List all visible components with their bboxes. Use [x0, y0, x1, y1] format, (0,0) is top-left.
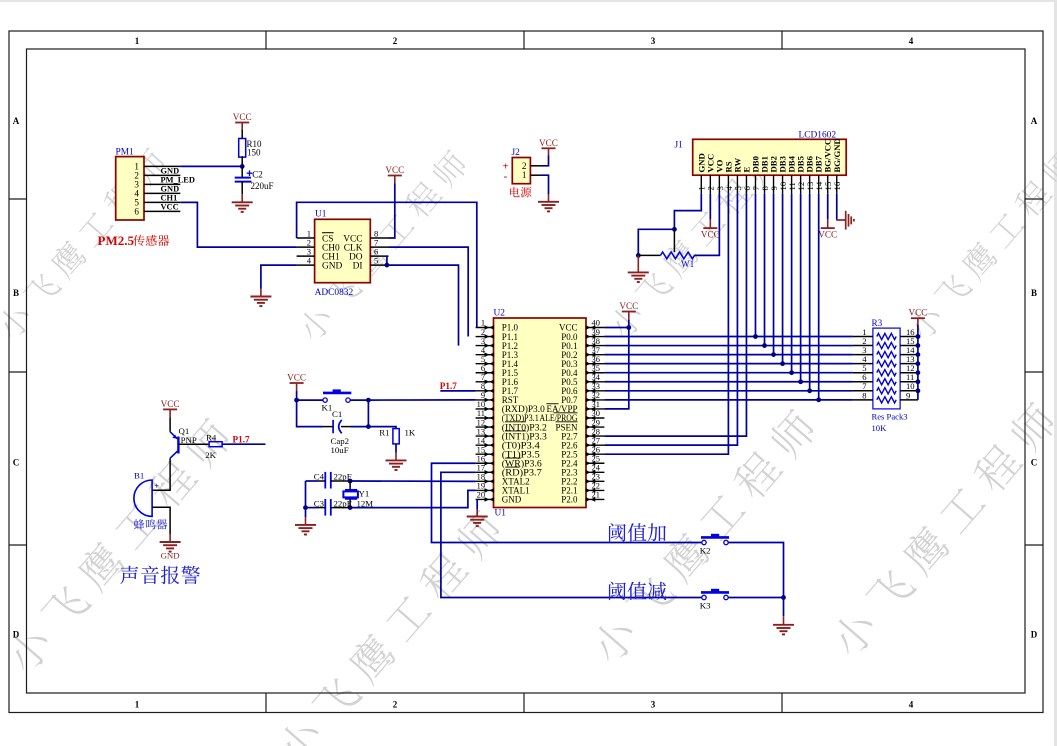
wire P0.1 net: U2.38 to R3.2: [604, 345, 853, 347]
wire buzzer bottom to ground: [152, 507, 170, 534]
wire P0.7 net: U2.32 to R3.8: [604, 399, 853, 401]
wire DI net to U2 P1.2: [389, 265, 459, 346]
wire Q1 collector to buzzer: [152, 458, 170, 490]
wire J2.2 to VCC: [540, 156, 549, 166]
potentiometer W1: [661, 252, 695, 259]
svg-text:39: 39: [592, 328, 600, 337]
svg-text:VCC: VCC: [161, 399, 180, 409]
svg-text:10K: 10K: [872, 423, 888, 433]
svg-text:B: B: [1031, 288, 1037, 298]
junction (R3 pin 13): [916, 361, 921, 366]
svg-text:24: 24: [592, 464, 601, 473]
svg-text:7: 7: [481, 373, 485, 382]
ground (W1): [637, 255, 639, 272]
junction (DB6/P0.6): [807, 388, 812, 393]
svg-text:4: 4: [909, 36, 914, 46]
svg-text:23: 23: [592, 473, 600, 482]
svg-text:19: 19: [477, 482, 485, 491]
wire DB5: J1.12 down to P0.5: [800, 194, 802, 382]
svg-text:GND: GND: [161, 167, 180, 176]
junction (DB4/P0.4): [789, 370, 794, 375]
svg-text:11: 11: [477, 409, 485, 418]
svg-text:VCC: VCC: [233, 112, 252, 122]
wire C4/XTAL2 net to U2.18: [331, 480, 350, 482]
wire RS: J1.4 to U2 P2.5: [604, 194, 728, 454]
wire DB3: J1.10 down to P0.3: [782, 194, 784, 364]
svg-text:17: 17: [477, 464, 485, 473]
wire C3 left: [306, 507, 318, 509]
wire RW: J1.5 to U2 P2.6: [604, 194, 737, 445]
svg-text:ADC0832: ADC0832: [315, 288, 354, 298]
svg-text:32: 32: [592, 391, 600, 400]
wire DB0: J1.7 down to P0.0: [754, 194, 756, 337]
wire E: J1.6 to U2 P2.7: [604, 194, 746, 436]
svg-text:14: 14: [477, 436, 486, 445]
svg-text:20: 20: [477, 491, 485, 500]
switch K1: [297, 399, 323, 401]
wire CLK net: U1.7 to U2 P1.1: [389, 247, 469, 336]
junction (DB5/P0.5): [798, 379, 803, 384]
svg-text:VCC: VCC: [908, 308, 927, 318]
svg-text:VCC: VCC: [385, 165, 404, 175]
svg-text:C: C: [13, 458, 20, 468]
junction (DB0/P0.0): [753, 334, 758, 339]
capacitor C4: [324, 472, 326, 489]
ground (C3/C4): [305, 517, 307, 525]
wire U2.16 WR to K2: [432, 463, 702, 542]
svg-text:GND: GND: [161, 185, 180, 194]
junction (DB3/P0.3): [780, 361, 785, 366]
svg-text:U1: U1: [495, 509, 507, 519]
svg-text:C: C: [1031, 458, 1038, 468]
signal ground (J1.16): [836, 219, 845, 221]
svg-text:VCC: VCC: [539, 138, 558, 148]
wire P0.0 net: U2.39 to R3.1: [604, 336, 853, 338]
junction (VCC/EA node): [626, 325, 631, 330]
junction (R3 pin 10): [916, 388, 921, 393]
wire P0.3 net: U2.36 to R3.4: [604, 363, 853, 365]
wire K3 right to ground node: [728, 597, 783, 599]
junction (VCC/K1/C1): [294, 398, 299, 403]
svg-text:J1: J1: [675, 141, 684, 151]
junction node (R10/C2/PM1.1): [240, 164, 245, 169]
svg-text:9: 9: [481, 391, 485, 400]
svg-text:1: 1: [522, 170, 527, 180]
resistor network R3 Res Pack3: [873, 328, 900, 409]
power VCC (J1.2) inverted: [709, 194, 711, 219]
wire R3 common to VCC: [917, 325, 919, 400]
svg-text:B1: B1: [134, 471, 144, 481]
junction (DB1/P0.1): [762, 343, 767, 348]
svg-text:D: D: [1031, 630, 1038, 640]
wire K1 node down to C1 node: [367, 400, 369, 427]
junction (DB7/P0.7): [816, 397, 821, 402]
junction (W1 left/ground): [636, 253, 641, 258]
svg-text:26: 26: [592, 445, 600, 454]
mcu U2 AT89C51: [494, 318, 587, 508]
label buzzer (fengmingqi): [134, 519, 167, 529]
wire J1.16 to signal ground: [836, 194, 838, 220]
svg-text:PM1: PM1: [116, 148, 135, 158]
svg-text:B: B: [13, 288, 19, 298]
svg-text:C1: C1: [332, 409, 342, 419]
svg-text:J2: J2: [512, 148, 521, 158]
svg-text:29: 29: [592, 418, 600, 427]
ground (R1): [395, 452, 397, 460]
wire C3/XTAL1 net to U2.19: [331, 507, 350, 509]
svg-text:-: -: [504, 171, 508, 183]
svg-text:C2: C2: [252, 170, 263, 180]
svg-text:30: 30: [592, 409, 600, 418]
wire J1.3 VO to W1 right: [695, 194, 720, 256]
svg-text:Y1: Y1: [359, 489, 370, 499]
svg-text:GND: GND: [322, 261, 343, 271]
wire K1 to RST node: [350, 399, 368, 401]
svg-text:13: 13: [477, 427, 485, 436]
svg-text:1: 1: [481, 319, 485, 328]
wire U2.40 to VCC node: [604, 327, 628, 329]
wire CS net: U1.1 to U2 P1.0: [297, 202, 477, 327]
switch K2: [702, 540, 706, 544]
svg-text:+: +: [154, 480, 159, 490]
svg-text:38: 38: [592, 337, 600, 346]
wire C1 right to R1 node: [351, 426, 368, 428]
svg-text:35: 35: [592, 364, 600, 373]
junction (DO/DI): [385, 263, 390, 268]
wire U2.17 RD to K3: [441, 472, 702, 597]
ground (B1) with GND label: [169, 534, 171, 542]
label threshold plus (yuzhijia): [609, 523, 666, 541]
svg-text:3: 3: [651, 700, 656, 710]
junction (R3 pin 11): [916, 379, 921, 384]
ground (K2/K3): [783, 598, 785, 617]
power VCC (J1.15) inverted: [827, 194, 829, 219]
svg-text:9: 9: [906, 390, 910, 400]
wire to R1 top: [368, 427, 396, 429]
svg-text:15: 15: [477, 445, 485, 454]
power VCC (U2.40): [622, 311, 636, 313]
svg-text:R1: R1: [379, 428, 389, 438]
svg-text:150: 150: [247, 148, 261, 158]
ground (U2 GND): [476, 510, 478, 517]
svg-text:R3: R3: [872, 318, 883, 328]
svg-text:5: 5: [481, 355, 485, 364]
wire DO to DI tie: [386, 256, 388, 265]
junction (C3 left/ground): [303, 505, 308, 510]
svg-text:GND: GND: [502, 495, 522, 505]
svg-text:PM2.5: PM2.5: [98, 233, 135, 248]
wire EA/VPP to VCC node: [604, 328, 628, 409]
wire J1.1 GND to W1 node: [674, 194, 701, 230]
junction (R3 pin 12): [916, 370, 921, 375]
wire left verticals to ground: [305, 481, 307, 517]
power VCC (Q1): [163, 408, 177, 410]
svg-text:U2: U2: [494, 309, 506, 319]
resistor R10: [239, 139, 246, 158]
wire DB4: J1.11 down to P0.4: [791, 194, 793, 373]
junction (DB2/P0.2): [771, 352, 776, 357]
svg-text:18: 18: [477, 473, 485, 482]
svg-text:P2.0: P2.0: [561, 495, 578, 505]
svg-text:16: 16: [832, 181, 842, 190]
power VCC (K1): [290, 382, 304, 384]
ground (U1 GND): [260, 289, 262, 297]
junction (R3 pin 16): [916, 334, 921, 339]
wire DB7: J1.14 down to P0.7: [818, 194, 820, 400]
svg-text:A: A: [1031, 116, 1038, 126]
svg-text:C4: C4: [314, 471, 325, 481]
svg-text:25: 25: [592, 454, 600, 463]
wire to W1 left terminal: [638, 254, 660, 256]
svg-text:A: A: [13, 116, 20, 126]
svg-text:DI: DI: [353, 261, 363, 271]
svg-text:VCC: VCC: [287, 373, 306, 383]
wire VCC to Q1 emitter: [169, 418, 171, 432]
wire PM1.1 to node: [180, 165, 242, 167]
wire P0.4 net: U2.35 to R3.5: [604, 372, 853, 374]
svg-text:2: 2: [393, 700, 398, 710]
ground (C2): [241, 194, 243, 202]
svg-text:37: 37: [592, 346, 600, 355]
svg-text:VCC: VCC: [701, 229, 720, 239]
svg-text:K1: K1: [322, 403, 333, 413]
resistor R1: [393, 429, 399, 444]
svg-text:40: 40: [592, 319, 600, 328]
label threshold minus (yuzhijian): [609, 582, 666, 601]
resistor R4: [209, 442, 222, 447]
capacitor C1 Cap2: [332, 420, 334, 433]
svg-text:10uF: 10uF: [331, 445, 349, 455]
junction (R3 pin 15): [916, 343, 921, 348]
junction (R3 pin 14): [916, 352, 921, 357]
svg-text:2K: 2K: [205, 450, 216, 460]
connector J2: [512, 158, 530, 184]
svg-text:28: 28: [592, 427, 600, 436]
net label P1.7 (U2.8): [440, 390, 475, 392]
svg-text:36: 36: [592, 355, 600, 364]
connector J1 LCD1602: [693, 139, 847, 175]
wire RST net to U2.9: [368, 399, 475, 401]
capacitor C3: [324, 499, 326, 516]
svg-text:27: 27: [592, 436, 600, 445]
svg-text:P1.7: P1.7: [233, 435, 251, 445]
power VCC (R10 top): [235, 122, 249, 124]
capacitor C2: [241, 166, 243, 177]
buzzer B1: [134, 480, 152, 516]
wire DB1: J1.8 down to P0.1: [764, 194, 766, 346]
svg-text:R4: R4: [206, 433, 217, 443]
svg-text:CH1: CH1: [161, 194, 178, 203]
wire P0.6 net: U2.33 to R3.7: [604, 390, 853, 392]
wire P0.5 net: U2.34 to R3.6: [604, 381, 853, 383]
svg-text:34: 34: [592, 373, 601, 382]
svg-text:1: 1: [135, 36, 140, 46]
svg-text:1K: 1K: [405, 428, 416, 438]
wire P0.2 net: U2.37 to R3.3: [604, 354, 853, 356]
wire C4 left: [306, 480, 318, 482]
svg-text:2: 2: [481, 328, 485, 337]
junction (C1/R1): [366, 424, 371, 429]
svg-text:3: 3: [651, 36, 656, 46]
svg-text:GND: GND: [161, 551, 180, 561]
op-amp U1 ADC0832: [315, 219, 371, 282]
power VCC (R3): [911, 317, 925, 319]
wire DB6: J1.13 down to P0.6: [809, 194, 811, 391]
label power (dianyuan): [510, 187, 531, 198]
power VCC (U1.8): [388, 175, 402, 177]
junction (K2/K3/ground): [781, 595, 786, 600]
svg-text:12M: 12M: [357, 499, 374, 509]
svg-text:PM_LED: PM_LED: [161, 176, 195, 185]
wire W1 wiper node to left: [638, 229, 674, 255]
wire U1.8 to VCC: [389, 184, 395, 239]
wire U2.20 GND to ground: [476, 499, 478, 509]
junction (K1/RST/C1): [366, 398, 371, 403]
svg-text:12: 12: [477, 418, 485, 427]
crystal Y1: [349, 481, 351, 490]
svg-text:31: 31: [592, 400, 600, 409]
svg-text:1: 1: [135, 700, 140, 710]
junction (C3/Y1): [348, 505, 353, 510]
label sound alarm (shengyinbaojing): [120, 566, 200, 585]
svg-text:3: 3: [481, 337, 485, 346]
wire U1.4 GND to ground: [261, 265, 297, 288]
connector PM1: [116, 157, 144, 220]
switch K3: [702, 595, 706, 599]
transistor Q1 PNP: [177, 437, 179, 454]
wire CH0 net: PM1.5 to U1.2: [180, 202, 296, 247]
svg-text:U1: U1: [315, 210, 327, 220]
svg-text:22: 22: [592, 482, 600, 491]
power VCC (J2): [542, 147, 556, 149]
wire Q1 base to R4: [178, 443, 209, 445]
junction (W1 wiper node): [672, 227, 677, 232]
svg-text:21: 21: [592, 491, 600, 500]
svg-text:4: 4: [307, 256, 312, 266]
svg-text:10: 10: [477, 400, 485, 409]
svg-text:Res Pack3: Res Pack3: [872, 412, 908, 422]
svg-text:K2: K2: [700, 546, 711, 556]
svg-text:6: 6: [134, 206, 139, 216]
junction (C4/Y1): [348, 479, 353, 484]
ground (J2): [548, 194, 550, 202]
wire VCC node down to C1: [297, 400, 323, 427]
svg-text:6: 6: [481, 364, 485, 373]
svg-text:8: 8: [481, 382, 485, 391]
svg-text:D: D: [13, 630, 20, 640]
svg-text:P1.7: P1.7: [440, 381, 458, 391]
svg-text:16: 16: [477, 454, 485, 463]
svg-text:33: 33: [592, 382, 600, 391]
svg-text:2: 2: [393, 36, 398, 46]
svg-text:8: 8: [862, 390, 866, 400]
wire DB2: J1.9 down to P0.2: [773, 194, 775, 355]
svg-text:220uF: 220uF: [251, 181, 274, 191]
svg-text:VCC: VCC: [818, 229, 837, 239]
svg-text:5: 5: [374, 256, 378, 266]
svg-text:VCC: VCC: [619, 301, 638, 311]
wire K2 right to ground node: [728, 543, 783, 598]
svg-text:W1: W1: [681, 259, 695, 269]
wire R4 to P1.7 net: [222, 443, 265, 445]
wire J2.1 to ground: [540, 175, 549, 194]
svg-text:BG/GND: BG/GND: [832, 138, 842, 172]
svg-text:4: 4: [909, 700, 914, 710]
svg-text:VCC: VCC: [161, 203, 179, 212]
svg-text:K3: K3: [700, 601, 711, 611]
